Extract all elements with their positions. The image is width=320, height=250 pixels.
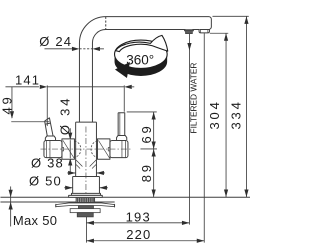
svg-text:FILTERED WATER: FILTERED WATER <box>188 63 198 134</box>
svg-text:220: 220 <box>126 227 151 242</box>
svg-text:Max 50: Max 50 <box>13 213 57 228</box>
svg-text:Ø 24: Ø 24 <box>39 34 72 49</box>
svg-text:49: 49 <box>0 94 14 114</box>
svg-text:360°: 360° <box>126 52 154 67</box>
svg-text:Ø 34: Ø 34 <box>57 96 72 135</box>
svg-text:334: 334 <box>228 99 243 129</box>
svg-text:304: 304 <box>207 99 222 129</box>
svg-text:193: 193 <box>126 210 151 225</box>
svg-text:69: 69 <box>139 123 154 143</box>
svg-text:Ø 38: Ø 38 <box>31 155 64 170</box>
svg-text:89: 89 <box>139 162 154 182</box>
svg-text:Ø 50: Ø 50 <box>29 173 62 188</box>
svg-text:141: 141 <box>15 72 40 87</box>
